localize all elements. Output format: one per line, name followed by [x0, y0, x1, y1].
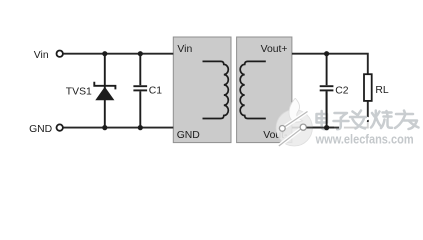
- wire GND rail (bottom left): [63, 127, 174, 129]
- wire Vout- (bottom right, to RL): [292, 101, 368, 128]
- module U1 (primary side box): [173, 37, 231, 143]
- resistor RL: [364, 74, 372, 101]
- svg-text:Vin: Vin: [34, 50, 49, 61]
- wire Vout+ (top right, to RL): [292, 54, 368, 74]
- svg-text:C1: C1: [149, 86, 163, 97]
- watermark whitening over wire: [334, 122, 368, 128]
- wire Vin rail (top left): [63, 53, 173, 55]
- junction bottom-TVS: [102, 125, 107, 130]
- svg-text:GND: GND: [29, 124, 52, 135]
- svg-text:Vout+: Vout+: [261, 44, 288, 55]
- junction bottom-C2 redraw: [324, 125, 329, 130]
- TVS diode TVS1: [94, 54, 115, 128]
- wire Vout- redraw over watermark: [307, 127, 340, 129]
- capacitor C2: [320, 54, 334, 128]
- module U2 (secondary side box): [237, 37, 292, 143]
- svg-text:TVS1: TVS1: [66, 87, 92, 98]
- watermark text www.elecfans.com: [315, 133, 415, 148]
- wire C2 lower lead redraw over watermark: [326, 91, 328, 127]
- junction bottom-C2: [324, 125, 329, 130]
- svg-text:Vin: Vin: [177, 44, 192, 55]
- terminal Vin: [57, 51, 63, 57]
- watermark text 电子发烧友: [317, 111, 421, 131]
- inductor L2 (secondary winding): [240, 61, 266, 118]
- capacitor C1: [133, 54, 147, 128]
- svg-text:www.elecfans.com: www.elecfans.com: [315, 133, 414, 147]
- svg-text:RL: RL: [375, 85, 389, 96]
- inductor L1 (primary winding): [203, 61, 229, 118]
- junction top-TVS: [102, 51, 107, 56]
- svg-text:C2: C2: [335, 86, 349, 97]
- svg-text:GND: GND: [177, 130, 200, 141]
- junction bottom-C1: [138, 125, 143, 130]
- junction top-C1: [138, 51, 143, 56]
- junction top-C2: [324, 51, 329, 56]
- terminal GND: [57, 124, 63, 130]
- watermark logo (elecfans): [276, 99, 312, 147]
